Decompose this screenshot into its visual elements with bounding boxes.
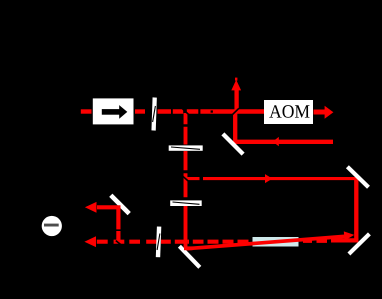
node dot on main beam at x=211.7: [211, 110, 213, 112]
wire: main beam dashes after waveplate: [158, 109, 265, 113]
mirror M1 (below AOM return corner): [223, 134, 243, 154]
wire: AOM return beam y=141.8 with corner up at x=236: [233, 90, 333, 144]
arrow: lower-left beam arrowhead to detector: [84, 236, 96, 247]
arrow: upper-left beam arrowhead to detector: [85, 202, 97, 213]
AOM label: [269, 105, 309, 118]
arrow: AOM output arrowhead: [325, 106, 334, 119]
isolator arrow: [102, 109, 120, 115]
waveplate W4 (vertical on bottom beam): [158, 227, 159, 258]
optical isolator box: [93, 98, 134, 124]
AOM box: [264, 100, 313, 124]
wire: bottom return beam dashed through cell region to left: [187, 240, 298, 244]
wire: main beam between isolator and waveplate: [135, 109, 145, 113]
wire: pump loop branch y=178 going right, corner down at right: [187, 177, 358, 180]
node kink at (186,111.5) black notch: [183, 109, 189, 115]
node kink at (186,177) black notch: [183, 176, 189, 181]
arrow: upward beam arrowhead at x=236: [231, 80, 241, 91]
waveplate W1 (vertical, after isolator): [154, 98, 155, 131]
mirror M2 (lower left, above detector corner, under beam): [111, 195, 129, 213]
arrow: AOM return leftward arrowhead: [273, 137, 279, 146]
mirror M3 (top right): [347, 167, 368, 188]
wire: pump loop right vertical down to bottom mirror: [354, 177, 358, 240]
waveplate W3 (horizontal on pickoff beam, lower): [170, 200, 202, 206]
wire: AOM output arrow shaft: [314, 110, 326, 115]
wire: red jog at BS junction: [184, 246, 193, 250]
node kink at (236,111.5) black notch: [232, 108, 239, 115]
wire: bottom return beam dashed left of BS junction: [97, 240, 184, 244]
arrow: sloped pump beam arrowhead: [344, 231, 355, 240]
arrow: pump loop rightward arrowhead: [265, 174, 272, 183]
wire: vertical pickoff beam at x=185.5 (dashed down): [184, 113, 188, 247]
wire: reference beam corner x=118.4 up and left to detector: [97, 205, 118, 241]
photodetector (subtraction): [42, 216, 62, 236]
mirror M4 (bottom right): [349, 234, 370, 254]
wire: sloped pump beam through cell: [187, 236, 345, 248]
waveplate W2 (horizontal on pickoff beam, upper): [169, 145, 203, 150]
vapour cell: [253, 237, 299, 247]
wire: main laser beam dashed (left of isolator): [81, 109, 92, 113]
beamsplitter BS (under beams): [179, 246, 199, 267]
node kink at (118.5,243) black notch: [116, 241, 122, 246]
wire: bottom return beam y=241.5 dashed (right part, corner from vertical): [303, 238, 358, 243]
